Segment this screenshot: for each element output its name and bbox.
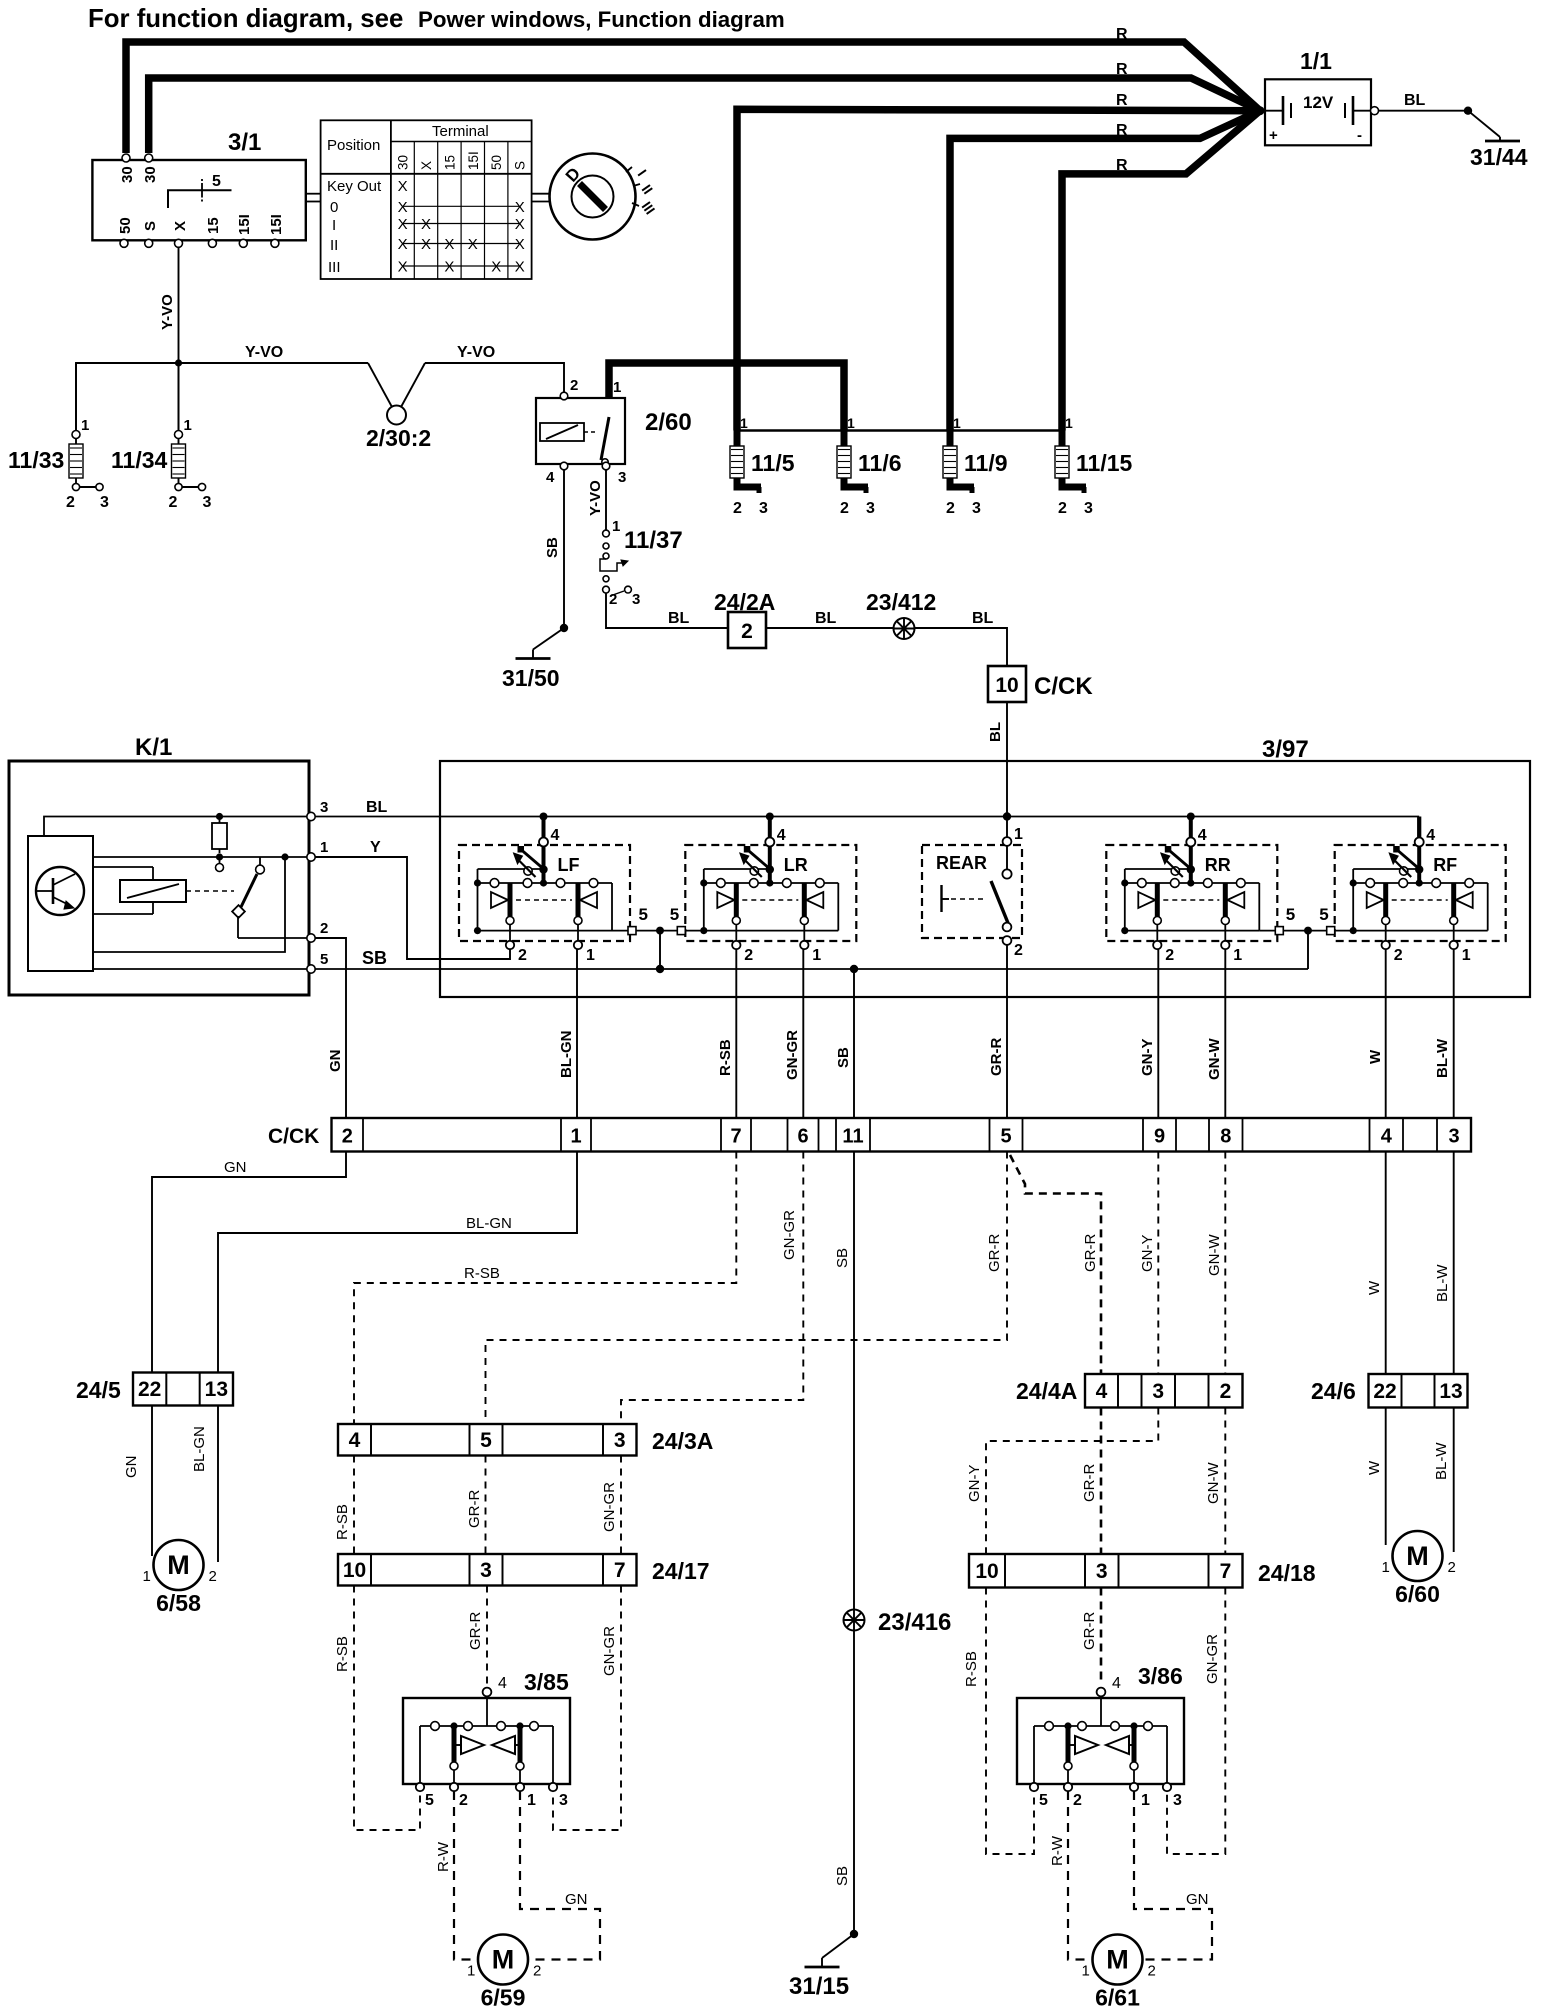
svg-text:R-SB: R-SB [963, 1651, 980, 1687]
svg-text:GN-Y: GN-Y [966, 1465, 983, 1503]
fuse 11/34 [111, 363, 212, 511]
svg-text:1: 1 [143, 1568, 151, 1585]
window switch RR frame [1124, 883, 1126, 931]
svg-text:7: 7 [1220, 1560, 1232, 1583]
splice 23/412 [894, 618, 915, 639]
wire R feed 5 (fuse 11/15 to battery) [1062, 111, 1260, 431]
svg-text:2/60: 2/60 [645, 409, 692, 436]
wire BL-W RF pin 1 to C/CK 3 [1453, 949, 1455, 1118]
window switch REAR top contact [1006, 845, 1008, 869]
wire GN-Y C/CK 9 to 24/4A pin 3 [1157, 1152, 1159, 1375]
svg-text:4: 4 [1096, 1380, 1108, 1403]
svg-text:3: 3 [559, 1792, 568, 1809]
window motor 6/60 [1382, 1531, 1456, 1607]
svg-text:3: 3 [1084, 500, 1093, 517]
wire GN C/CK 2 to 24/5 pin 22 [152, 1152, 346, 1373]
window switch 3/85 contact row [486, 1696, 488, 1726]
window switch LF frame [477, 883, 479, 931]
svg-text:3: 3 [759, 500, 768, 517]
svg-text:X: X [515, 236, 525, 253]
battery 1/1 output terminal [1371, 107, 1379, 115]
junction SB bus at LF/LR [656, 965, 664, 973]
wire Y-VO relay 2/60 pin 3 to switch 11/37 [605, 470, 607, 530]
svg-text:X: X [421, 216, 431, 233]
svg-text:2: 2 [1058, 500, 1067, 517]
connector C/CK pin 1 [561, 1118, 591, 1152]
svg-text:GN: GN [327, 1050, 344, 1073]
svg-text:11/33: 11/33 [8, 447, 64, 473]
svg-text:3: 3 [1448, 1126, 1459, 1148]
window motor 6/61 [1082, 1935, 1156, 2011]
svg-text:III: III [328, 259, 341, 276]
svg-text:3: 3 [618, 469, 626, 486]
window switch RF mechanical link [1392, 899, 1448, 901]
svg-text:Terminal: Terminal [432, 123, 489, 140]
svg-text:-: - [1357, 127, 1362, 144]
svg-text:BL-W: BL-W [1434, 1264, 1451, 1302]
window switch 3/85 direction contacts [461, 1736, 484, 1754]
wire GR-R 24/4A pin 4 to 24/18 pin 3 [1100, 1408, 1103, 1555]
window switch RF pin 4 [1415, 838, 1424, 847]
wire Y-VO to relay 2/60 pin 2 [560, 363, 564, 392]
switch 11/37 pin 3 [610, 591, 624, 596]
svg-text:1: 1 [570, 1126, 581, 1148]
wire R-SB C/CK 7 to 24/3A pin 4 [354, 1152, 736, 1425]
svg-text:Y: Y [370, 839, 381, 856]
wire LF/LR pin5 junction drop [659, 931, 661, 969]
svg-text:1: 1 [1014, 826, 1023, 843]
window switch RF right contact bar [1451, 883, 1456, 917]
svg-text:4: 4 [1112, 1675, 1121, 1692]
svg-text:4: 4 [349, 1429, 361, 1452]
wire SB C/CK 11 to splice 23/416 [853, 1152, 855, 1610]
window switch RF pin 4 lead [1417, 817, 1421, 884]
table link to key symbol [532, 193, 549, 195]
relay 2/60 [536, 377, 692, 486]
connector 24/6 [1311, 1374, 1468, 1408]
connector strip C/CK [268, 1118, 1471, 1152]
svg-text:GR-R: GR-R [466, 1490, 483, 1528]
svg-text:W: W [1367, 1049, 1384, 1064]
svg-text:5: 5 [212, 173, 221, 190]
svg-text:Key Out: Key Out [327, 178, 382, 195]
fuse supply bus node [734, 429, 1065, 432]
window switch 3/86 pin 1 [1130, 1783, 1138, 1791]
table link to ignition switch [306, 193, 321, 195]
connector 24/3A [338, 1424, 713, 1456]
svg-text:BL-W: BL-W [1433, 1442, 1450, 1480]
title text [88, 5, 785, 33]
window switch REAR bottom contact [1003, 923, 1012, 932]
svg-text:GR-R: GR-R [988, 1038, 1005, 1076]
window switch LF enclosure [459, 845, 630, 941]
svg-text:GN-GR: GN-GR [784, 1030, 801, 1080]
svg-text:S: S [142, 221, 159, 231]
svg-text:GN-GR: GN-GR [601, 1626, 618, 1676]
wire BL-GN C/CK 1 to 24/5 pin 13 [218, 1152, 577, 1373]
connector C/CK pin 9 [1143, 1118, 1176, 1152]
window switch LF pin 1 [577, 925, 579, 942]
ground 31/44 [1464, 107, 1528, 171]
window switch LF mechanical link [516, 899, 572, 901]
connector C/CK pin 8 [1209, 1118, 1243, 1152]
wire BL splice to connector C/CK 10 [915, 628, 1008, 666]
svg-text:1: 1 [184, 417, 192, 434]
svg-text:GR-R: GR-R [1082, 1234, 1099, 1272]
window switch 3/85 right contact bar [518, 1726, 523, 1762]
junction Y-VO at fuse 11/34 [175, 359, 182, 366]
svg-text:X: X [398, 236, 408, 253]
wire GN-Y RR pin 2 to C/CK 9 [1157, 949, 1159, 1118]
window switch 3/85 pin 5 [416, 1783, 424, 1791]
wire BL C/CK 10 down to switch pack [1006, 702, 1008, 838]
svg-text:GN-GR: GN-GR [601, 1482, 618, 1532]
window switch 3/85 pin 1 [516, 1783, 524, 1791]
svg-text:15I: 15I [236, 214, 253, 235]
ignition key symbol [550, 154, 659, 240]
svg-text:Power windows, Function diagra: Power windows, Function diagram [418, 7, 785, 32]
switch 11/37 thermal element [600, 559, 624, 571]
svg-text:0: 0 [330, 199, 338, 216]
svg-text:W: W [1366, 1460, 1383, 1475]
svg-text:2: 2 [342, 1126, 353, 1148]
svg-text:REAR: REAR [936, 853, 987, 873]
window switch LF pin 5 [612, 930, 660, 932]
svg-text:24/3A: 24/3A [652, 1428, 713, 1454]
svg-text:X: X [444, 236, 454, 253]
svg-text:10: 10 [343, 1559, 366, 1582]
window switch 3/86 left contact bar [1066, 1726, 1071, 1762]
svg-text:2: 2 [1165, 947, 1174, 964]
connector 24/17 [338, 1554, 710, 1586]
ground 31/15 [789, 1930, 858, 2000]
svg-text:R: R [1116, 122, 1128, 139]
K/1 transistor [36, 867, 84, 915]
svg-text:5: 5 [480, 1429, 492, 1452]
svg-text:1: 1 [527, 1792, 536, 1809]
svg-text:11/9: 11/9 [964, 450, 1008, 476]
svg-text:3: 3 [480, 1559, 492, 1582]
wire BL bus drop to RF pin 4 [1417, 817, 1421, 839]
window switch LF pin 4 [539, 838, 548, 847]
svg-text:2: 2 [518, 947, 527, 964]
svg-text:5: 5 [1319, 905, 1328, 924]
window motor 6/58 [143, 1540, 217, 1616]
window switch RF contact row [1353, 882, 1488, 884]
wire R-W 3/86 pin 2 to motor 6/61 [1068, 1791, 1091, 1960]
svg-text:3: 3 [203, 494, 212, 511]
ignition switch 3/1 [92, 129, 305, 247]
svg-text:X: X [515, 216, 525, 233]
window switch 3/85 pin 5 branch [419, 1726, 421, 1785]
svg-text:5: 5 [320, 951, 328, 968]
svg-text:S: S [513, 161, 528, 170]
svg-text:R-SB: R-SB [717, 1039, 734, 1076]
window switch REAR lever [991, 881, 1008, 923]
window switch 3/85 pin 3 [549, 1783, 557, 1791]
window switch RR right contact bar [1223, 883, 1228, 917]
svg-text:3: 3 [1173, 1792, 1182, 1809]
window switch RR rocker lever [1125, 868, 1191, 870]
svg-text:4: 4 [1426, 827, 1435, 844]
svg-text:15: 15 [205, 217, 222, 234]
wire Y-VO horizontal run [76, 363, 368, 435]
connector C/CK pin 10 [988, 666, 1093, 702]
wire SB splice to ground 31/15 [853, 1631, 855, 1935]
fuse 11/6 [837, 415, 902, 517]
svg-text:R: R [1116, 92, 1128, 109]
svg-text:GN-GR: GN-GR [781, 1210, 798, 1260]
svg-text:11/34: 11/34 [111, 447, 167, 473]
svg-text:2: 2 [533, 1963, 541, 1980]
wire GN-W RR pin 1 to C/CK 8 [1224, 949, 1226, 1118]
window switch LR rocker lever [704, 868, 770, 870]
svg-text:22: 22 [1373, 1380, 1396, 1403]
connector C/CK pin 2 [332, 1118, 364, 1152]
svg-text:15I: 15I [466, 151, 481, 170]
connector 24/18 [969, 1554, 1316, 1588]
svg-text:1: 1 [1382, 1559, 1390, 1576]
K/1 relay coil [120, 880, 186, 902]
splice 2/30:2 [387, 406, 406, 425]
window switch 3/86 pin 3 branch [1166, 1726, 1168, 1785]
ignition switch 3/1 terminal 15I a [239, 239, 247, 247]
window motor 6/59 [467, 1935, 541, 2011]
svg-text:X: X [398, 178, 408, 195]
window switch RF rocker lever [1353, 868, 1419, 870]
wire GN-W C/CK 8 to 24/4A pin 2 [1224, 1152, 1226, 1375]
svg-text:BL-GN: BL-GN [466, 1215, 512, 1232]
svg-text:R: R [1116, 26, 1128, 43]
window switch RR pin 4 [1186, 838, 1195, 847]
svg-text:6: 6 [797, 1126, 808, 1148]
K/1 switch [281, 853, 288, 860]
K/1 pin 3 [307, 812, 315, 820]
wire GN-Y 24/4A pin 3 to 24/18 pin 10 [986, 1408, 1158, 1555]
svg-text:M: M [1406, 1541, 1429, 1571]
svg-text:23/416: 23/416 [878, 1609, 951, 1636]
svg-text:2: 2 [459, 1792, 468, 1809]
svg-text:SB: SB [835, 1047, 852, 1068]
window switch LF pin 2 [509, 925, 511, 942]
svg-text:3: 3 [632, 591, 640, 608]
svg-text:1: 1 [612, 518, 620, 535]
svg-text:31/44: 31/44 [1470, 144, 1528, 170]
svg-text:11/15: 11/15 [1076, 450, 1132, 476]
wire SB drop to C/CK 11 [853, 969, 855, 1118]
svg-text:5: 5 [670, 905, 679, 924]
svg-text:6/59: 6/59 [481, 1985, 526, 2011]
relay 2/60 coil [540, 423, 584, 441]
svg-text:2: 2 [209, 1568, 217, 1585]
window switch RR pin 2 [1156, 925, 1158, 942]
svg-text:13: 13 [205, 1378, 228, 1401]
svg-text:2: 2 [840, 500, 849, 517]
svg-text:C/CK: C/CK [268, 1125, 319, 1148]
window switch LR pin 1 [803, 925, 805, 942]
svg-text:1: 1 [1065, 415, 1073, 431]
svg-text:BL-GN: BL-GN [191, 1426, 208, 1472]
svg-text:GR-R: GR-R [986, 1234, 1003, 1272]
svg-text:8: 8 [1220, 1126, 1231, 1148]
svg-text:GN: GN [565, 1891, 588, 1908]
svg-text:3: 3 [1096, 1560, 1108, 1583]
window switch REAR pin 1 [1003, 837, 1012, 846]
wire K/1 pin 2 to C/CK 2 [315, 938, 346, 1118]
svg-text:4: 4 [546, 469, 555, 486]
window switch RF left contact bar [1383, 883, 1388, 917]
wire BL-GN LF pin 1 to C/CK 1 [576, 949, 578, 1118]
K/1 internal BL rail [44, 817, 311, 837]
window switch RR contact row [1125, 882, 1260, 884]
svg-text:24/2A: 24/2A [714, 589, 775, 615]
svg-text:LR: LR [784, 855, 808, 875]
window switch RR pin 5 [1259, 930, 1308, 932]
wire R-SB LR pin 2 to C/CK 7 [735, 949, 737, 1118]
window switch 3/85 body [403, 1698, 570, 1784]
wire R feed 4 (fuse 11/9 to battery) [950, 111, 1260, 431]
window switch 3/86 direction contacts [1075, 1736, 1098, 1754]
svg-text:BL: BL [987, 722, 1004, 742]
svg-text:BL-W: BL-W [1434, 1038, 1451, 1078]
ignition switch 3/1 terminal 30 a [122, 154, 130, 162]
window switch LF pin 4 lead [542, 817, 546, 884]
K/1 pin 5 internal rail [93, 968, 311, 970]
wire R feed 3 (fuse 11/5 to battery) [737, 109, 1260, 430]
svg-text:GN: GN [1186, 1891, 1209, 1908]
svg-text:30: 30 [396, 155, 411, 170]
wire GN-GR REAR pin 2 to C/CK 5 [1006, 945, 1008, 1119]
svg-text:24/5: 24/5 [76, 1377, 121, 1403]
svg-text:12V: 12V [1303, 93, 1334, 112]
svg-text:10: 10 [975, 1560, 998, 1583]
svg-text:W: W [1366, 1280, 1383, 1295]
svg-text:R: R [1116, 157, 1128, 174]
svg-text:K/1: K/1 [135, 734, 172, 761]
svg-text:I: I [332, 217, 336, 234]
window switch LR left contact bar [734, 883, 739, 917]
ignition switch position table [321, 120, 532, 279]
svg-text:2: 2 [1394, 947, 1403, 964]
svg-text:X: X [398, 259, 408, 276]
svg-text:6/58: 6/58 [156, 1590, 201, 1616]
svg-text:3: 3 [320, 799, 328, 816]
wire GN 3/86 pin 1 to motor 6/61 [1134, 1791, 1212, 1960]
svg-text:X: X [468, 236, 478, 253]
svg-text:7: 7 [730, 1126, 741, 1148]
svg-text:50: 50 [489, 155, 504, 170]
control module K/1 [9, 734, 328, 995]
window switch RR mechanical link [1163, 899, 1219, 901]
svg-text:6/61: 6/61 [1095, 1985, 1140, 2011]
splice 23/416 [844, 1610, 865, 1631]
svg-text:2: 2 [733, 500, 742, 517]
svg-text:GN-Y: GN-Y [1139, 1039, 1156, 1077]
svg-text:3/1: 3/1 [228, 129, 261, 156]
svg-text:2: 2 [1148, 1963, 1156, 1980]
ignition switch 3/1 terminal 15 [208, 239, 216, 247]
splice 2/30:2 leads [368, 363, 392, 407]
svg-text:SB: SB [834, 1248, 851, 1268]
wire R relay feed (relay 2/60 pin 1 to fuse 11/6) [609, 363, 844, 431]
svg-text:RR: RR [1205, 855, 1231, 875]
window switch RF pin 5 [1308, 930, 1353, 932]
wire GR-R 24/18 to 3/86 pin 4 [1100, 1588, 1103, 1684]
window switch LR right contact bar [802, 883, 807, 917]
svg-text:23/412: 23/412 [866, 589, 936, 615]
svg-text:3: 3 [100, 494, 109, 511]
svg-text:5: 5 [425, 1792, 434, 1809]
svg-text:11: 11 [842, 1126, 863, 1148]
connector C/CK pin 3 [1437, 1118, 1471, 1152]
connector 24/5 [76, 1373, 233, 1406]
svg-text:1: 1 [81, 417, 89, 434]
svg-text:9: 9 [1154, 1126, 1165, 1148]
svg-text:13: 13 [1439, 1380, 1462, 1403]
window switch LR contact row [704, 882, 839, 884]
window switch 3/86 pin 4 [1097, 1688, 1106, 1697]
relay 2/60 pin 3 [602, 462, 610, 470]
svg-text:R-SB: R-SB [334, 1636, 351, 1672]
ignition switch 3/1 terminal 30 b [145, 154, 153, 162]
svg-text:2: 2 [1220, 1380, 1232, 1403]
wire W C/CK 4 to 24/6 pin 22 [1385, 1152, 1387, 1375]
svg-text:R-W: R-W [435, 1841, 452, 1872]
wire GN 24/5 pin 22 to motor 6/58 [151, 1406, 153, 1557]
wire GN-GR LR pin 1 to C/CK 6 [802, 949, 804, 1118]
window switch RF pin 1 [1453, 925, 1455, 942]
svg-text:SB: SB [544, 537, 561, 558]
connector C/CK pin 6 [788, 1118, 819, 1152]
junction BL bus at RR [1187, 813, 1195, 821]
svg-text:24/4A: 24/4A [1016, 1378, 1077, 1404]
svg-text:+: + [1269, 127, 1278, 144]
svg-text:2: 2 [570, 377, 578, 394]
svg-text:1: 1 [740, 415, 748, 431]
svg-text:1: 1 [1233, 947, 1242, 964]
svg-text:Y-VO: Y-VO [457, 344, 495, 361]
svg-text:5: 5 [639, 905, 648, 924]
window switch 3/86 body [1017, 1698, 1184, 1784]
svg-text:1: 1 [812, 947, 821, 964]
svg-text:Y-VO: Y-VO [587, 480, 604, 516]
switch 11/37 pin 1 [603, 530, 610, 537]
connector C/CK pin 5 [990, 1118, 1023, 1152]
svg-text:3/86: 3/86 [1138, 1663, 1183, 1689]
svg-text:C/CK: C/CK [1034, 673, 1093, 700]
svg-text:GR-R: GR-R [1081, 1612, 1098, 1650]
K/1 inner unit box [28, 836, 93, 971]
svg-text:BL-GN: BL-GN [558, 1031, 575, 1079]
K/1 internal pin 1 rail [93, 856, 311, 858]
window switch 3/85 left contact bar [452, 1726, 457, 1762]
svg-text:2: 2 [66, 494, 75, 511]
svg-text:5: 5 [1000, 1126, 1011, 1148]
svg-text:GN-Y: GN-Y [1139, 1235, 1156, 1273]
svg-text:1: 1 [1462, 947, 1471, 964]
svg-text:11/6: 11/6 [858, 450, 902, 476]
svg-text:GR-R: GR-R [1081, 1464, 1098, 1502]
svg-text:SB: SB [834, 1866, 851, 1886]
svg-text:31/15: 31/15 [789, 1973, 849, 2000]
ignition switch 3/1 terminal 5 link [168, 190, 232, 208]
svg-text:1: 1 [613, 379, 621, 396]
svg-text:For function diagram, see: For function diagram, see [88, 5, 403, 33]
window switch RR pin 1 [1224, 925, 1226, 942]
svg-text:1: 1 [847, 415, 855, 431]
window switch 3/85 pin 4 [483, 1688, 492, 1697]
svg-text:4: 4 [777, 827, 786, 844]
